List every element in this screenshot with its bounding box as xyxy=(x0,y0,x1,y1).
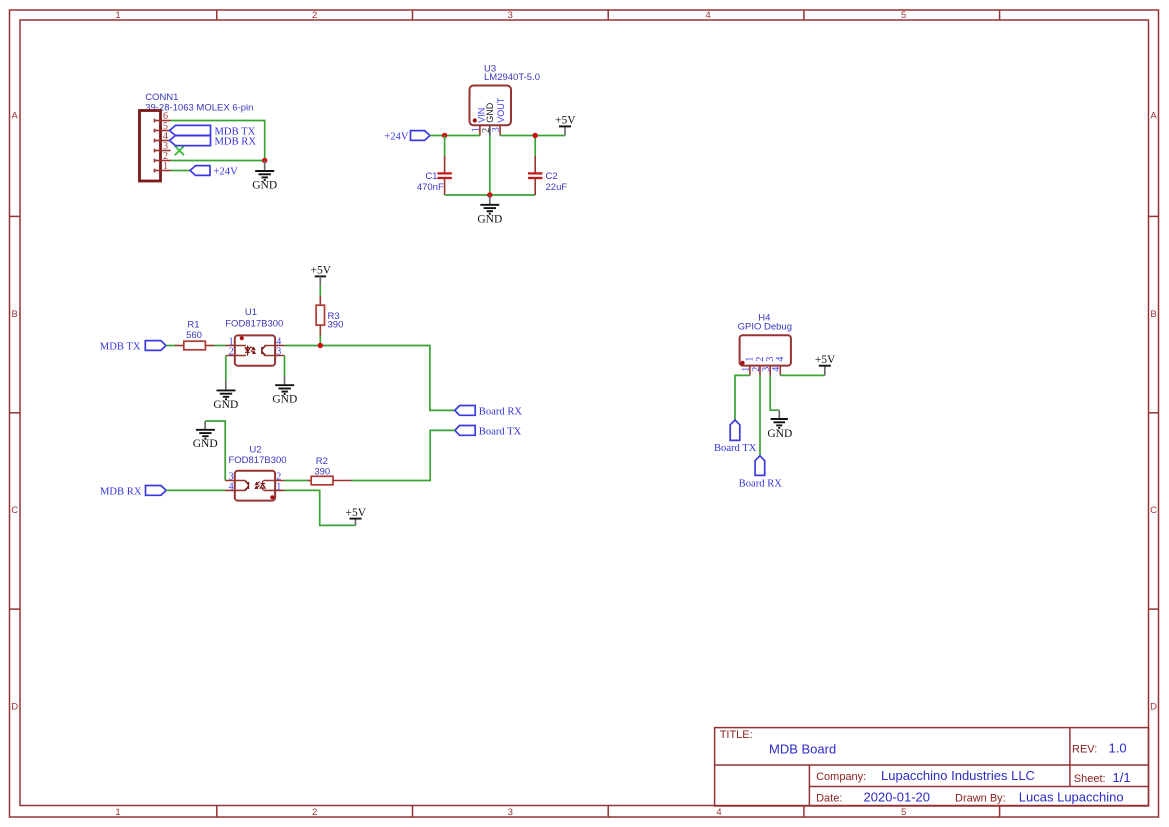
svg-text:1: 1 xyxy=(115,10,120,21)
svg-text:B: B xyxy=(12,309,18,320)
svg-text:5: 5 xyxy=(901,807,906,818)
svg-text:3: 3 xyxy=(276,346,281,357)
CONN1 pin 1 xyxy=(155,169,171,173)
net flag +24V (at U3 input) xyxy=(384,131,430,143)
svg-text:+5V: +5V xyxy=(311,264,332,276)
svg-text:VOUT: VOUT xyxy=(496,97,506,123)
wire R1 to U1 pin 1 xyxy=(214,345,225,347)
svg-text:C: C xyxy=(1150,505,1157,516)
net flag +24V (at CONN1 pin 1) xyxy=(190,166,238,178)
header H4 GPIO Debug xyxy=(738,312,792,365)
svg-text:2: 2 xyxy=(229,346,234,357)
wire U3 GND pin down xyxy=(489,136,491,196)
net flag Board RX (H4) xyxy=(739,456,783,490)
junction at +24V / C1 xyxy=(442,133,447,138)
svg-text:+24V: +24V xyxy=(214,166,239,177)
net flag Board TX (H4) xyxy=(714,420,757,454)
svg-text:D: D xyxy=(1150,702,1157,713)
connector CONN1 39-28-1063 MOLEX 6-pin xyxy=(140,92,254,181)
capacitor C1 470nF xyxy=(417,156,452,195)
net flag MDB TX (at R1) xyxy=(100,341,166,353)
resistor R3 390 xyxy=(316,296,343,336)
resistor R2 390 xyxy=(308,456,352,485)
U1 pin 4 xyxy=(265,345,285,347)
junction at VOUT / C2 xyxy=(533,133,538,138)
wire net +5V from H4 pin 4 xyxy=(780,374,825,376)
svg-text:Lucas Lupacchino: Lucas Lupacchino xyxy=(1019,790,1124,805)
svg-text:Drawn By:: Drawn By: xyxy=(955,793,1006,805)
svg-text:4: 4 xyxy=(771,367,782,372)
U2 pin 1 xyxy=(264,489,285,491)
svg-text:+24V: +24V xyxy=(384,131,409,142)
svg-text:MDB TX: MDB TX xyxy=(100,342,141,353)
ground symbol GND (U3) xyxy=(477,195,502,225)
wire U2 pin 2 to R2 xyxy=(285,480,308,482)
svg-text:390: 390 xyxy=(314,467,330,478)
H4 pin 3 xyxy=(769,366,771,376)
svg-text:22uF: 22uF xyxy=(546,182,568,193)
wire net +24V from CONN1 pin 1 xyxy=(171,170,191,172)
wire U1 pin 2 to GND xyxy=(225,356,227,381)
svg-text:GND: GND xyxy=(485,102,495,123)
wire net +5V from U2 pin 1 xyxy=(285,490,356,525)
svg-text:C1: C1 xyxy=(425,171,437,182)
capacitor C2 22uF xyxy=(528,156,567,195)
svg-text:2: 2 xyxy=(312,807,317,818)
svg-text:GPIO Debug: GPIO Debug xyxy=(738,322,792,333)
title block xyxy=(715,728,1149,806)
junction at GND node xyxy=(262,158,267,163)
H4 pin 1 xyxy=(749,366,751,376)
svg-text:FOD817B300: FOD817B300 xyxy=(225,319,283,330)
svg-text:3: 3 xyxy=(508,807,513,818)
ground symbol GND (U1 pin 2) xyxy=(213,381,238,411)
svg-text:D: D xyxy=(11,702,18,713)
U1 internal LED xyxy=(245,346,250,356)
H4 pin 2 xyxy=(759,366,761,376)
svg-text:A: A xyxy=(12,111,19,122)
net flag MDB TX (at CONN1 pin 5) xyxy=(170,125,256,137)
CONN1 pin 3 xyxy=(155,149,171,153)
U1 pin 3 xyxy=(265,355,285,357)
CONN1 pin 4 xyxy=(155,139,171,143)
power symbol +5V (U2) xyxy=(346,507,367,526)
svg-text:MDB RX: MDB RX xyxy=(100,486,142,497)
net flag MDB RX (at CONN1 pin 4) xyxy=(170,135,257,147)
svg-text:2: 2 xyxy=(312,10,317,21)
svg-text:1: 1 xyxy=(276,481,281,492)
svg-text:4: 4 xyxy=(705,10,710,21)
svg-text:MDB Board: MDB Board xyxy=(769,742,836,757)
no-connect cross on CONN1 pin 3 xyxy=(175,146,184,155)
power symbol +5V (above R3) xyxy=(311,264,332,285)
wire net GND from CONN1 pin 2 xyxy=(171,160,265,162)
U3 pin 1 (VIN) xyxy=(479,125,481,135)
svg-text:1/1: 1/1 xyxy=(1113,770,1131,785)
wire GND rail under U3 xyxy=(445,194,536,196)
ground symbol GND (CONN1) xyxy=(252,161,277,192)
U2 internal phototransistor xyxy=(245,481,249,491)
svg-text:Sheet:: Sheet: xyxy=(1074,773,1106,785)
svg-text:CONN1: CONN1 xyxy=(145,92,178,103)
svg-text:4: 4 xyxy=(775,357,786,362)
svg-text:+5V: +5V xyxy=(555,115,576,127)
junction at GND rail xyxy=(487,192,492,197)
ground symbol GND (U2 pin 3) xyxy=(193,421,218,450)
svg-text:Company:: Company: xyxy=(816,771,866,783)
svg-text:GND: GND xyxy=(477,213,502,225)
U1 pin 2 xyxy=(226,355,246,357)
CONN1 pin 6 xyxy=(155,119,171,123)
svg-text:3: 3 xyxy=(491,127,502,132)
U1 LED light arrows xyxy=(250,347,255,354)
U1 pin 1 xyxy=(226,345,247,347)
svg-text:B: B xyxy=(1150,309,1156,320)
wire +5V to R3 xyxy=(319,286,321,297)
svg-text:GND: GND xyxy=(193,438,218,450)
svg-text:R1: R1 xyxy=(187,320,199,331)
U2 internal LED xyxy=(260,481,265,491)
U2 pin 2 xyxy=(264,480,285,482)
CONN1 pin 5 xyxy=(155,129,171,133)
svg-text:Board TX: Board TX xyxy=(479,426,522,437)
svg-text:R2: R2 xyxy=(316,456,328,467)
wire net Board TX to R2 xyxy=(351,430,455,480)
wire C2 top branch xyxy=(534,136,536,157)
wire net Board RX from H4 pin 2 xyxy=(759,375,761,455)
U3 pin 3 (VOUT) xyxy=(499,125,501,135)
svg-text:3: 3 xyxy=(508,10,513,21)
wire net Board RX from U1 pin 4 xyxy=(285,346,455,411)
svg-text:GND: GND xyxy=(767,428,792,440)
power symbol +5V (U3 output) xyxy=(555,115,576,136)
svg-text:C2: C2 xyxy=(546,171,558,182)
wire U2 pin 3 to GND xyxy=(205,421,225,481)
wire MDB RX to U2 pin 4 xyxy=(166,489,225,491)
svg-text:C: C xyxy=(11,505,18,516)
optocoupler U2 FOD817B300 xyxy=(228,445,286,501)
svg-text:MDB RX: MDB RX xyxy=(215,136,257,147)
svg-text:LM2940T-5.0: LM2940T-5.0 xyxy=(484,72,540,83)
svg-text:GND: GND xyxy=(213,399,238,411)
CONN1 pin 2 xyxy=(155,159,171,163)
wire R3 bottom to node xyxy=(319,335,321,345)
U2 pin 4 xyxy=(225,489,246,491)
svg-text:560: 560 xyxy=(186,330,202,341)
power symbol +5V (H4) xyxy=(815,354,836,375)
wire U1 pin 3 to GND xyxy=(284,356,286,377)
wire net +24V into U3 VIN xyxy=(430,135,480,137)
wire net GND from CONN1 pin 6 xyxy=(171,121,265,161)
svg-text:Lupacchino Industries LLC: Lupacchino Industries LLC xyxy=(881,768,1035,783)
net flag MDB RX xyxy=(100,486,166,498)
svg-text:1: 1 xyxy=(115,807,120,818)
H4 pin 4 xyxy=(779,366,781,376)
svg-text:GND: GND xyxy=(252,180,277,192)
svg-text:TITLE:: TITLE: xyxy=(720,729,753,741)
svg-text:Board TX: Board TX xyxy=(714,443,757,454)
net flag Board RX xyxy=(455,406,523,418)
junction at R3 / U1 pin 4 xyxy=(318,343,323,348)
wire C1 top branch xyxy=(444,136,446,157)
svg-text:4: 4 xyxy=(229,481,234,492)
wire net Board TX from H4 pin 1 xyxy=(735,375,750,420)
svg-text:+5V: +5V xyxy=(346,507,367,519)
svg-text:470nF: 470nF xyxy=(417,182,444,193)
svg-text:U1: U1 xyxy=(245,307,257,318)
svg-text:Date:: Date: xyxy=(816,793,842,805)
svg-text:GND: GND xyxy=(272,393,297,405)
svg-text:2020-01-20: 2020-01-20 xyxy=(864,790,931,805)
svg-text:Board RX: Board RX xyxy=(739,478,783,489)
svg-text:REV:: REV: xyxy=(1072,744,1097,756)
svg-text:FOD817B300: FOD817B300 xyxy=(228,455,286,466)
U1 internal phototransistor xyxy=(262,346,266,356)
svg-text:1.0: 1.0 xyxy=(1109,741,1127,756)
U2 LED light arrows xyxy=(255,482,260,489)
svg-text:4: 4 xyxy=(716,807,721,818)
optocoupler U1 FOD817B300 xyxy=(225,307,283,366)
svg-text:1: 1 xyxy=(163,161,168,172)
net flag Board TX xyxy=(455,426,522,438)
wire U3 VOUT to +5V xyxy=(500,135,565,137)
wire MDB TX to R1 xyxy=(166,345,176,347)
svg-text:390: 390 xyxy=(328,319,344,330)
ground symbol GND (H4) xyxy=(767,410,792,440)
svg-text:5: 5 xyxy=(901,10,906,21)
regulator U3 LM2940T-5.0 xyxy=(470,64,540,126)
svg-text:Board RX: Board RX xyxy=(479,406,523,417)
svg-text:A: A xyxy=(1150,111,1157,122)
ground symbol GND (U1 pin 3) xyxy=(272,376,297,406)
svg-text:+5V: +5V xyxy=(815,354,836,366)
U2 pin 3 xyxy=(225,480,245,482)
resistor R1 560 xyxy=(175,320,215,350)
U3 pin 2 (GND) xyxy=(489,125,491,135)
wire net GND from H4 pin 3 xyxy=(770,375,779,410)
